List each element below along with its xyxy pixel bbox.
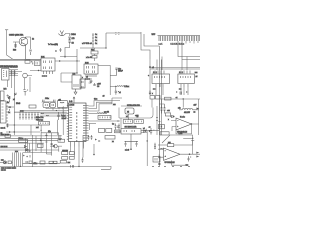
diode D203 (89, 78, 93, 83)
svg-text:17x: 17x (48, 131, 51, 133)
wire x41 long vertical (40, 125, 42, 152)
rail resistors zigzag (41, 113, 49, 116)
IC501 part number vertical (76, 112, 78, 142)
svg-text:x: x (152, 93, 153, 95)
K1 inner (126, 121, 131, 123)
wire y48 rail (80, 47, 106, 49)
capacitor C110 electro (7, 95, 10, 100)
wire vertical drops x25 x27 x29 (26, 138, 30, 152)
comp marks left of reg (117, 126, 119, 127)
wire L-run outer (141, 32, 150, 59)
wire y163.6 (12, 161, 61, 164)
svg-text:IC01: IC01 (41, 57, 45, 59)
ticks on right verticals (156, 118, 161, 122)
op-amp IC571a (176, 118, 192, 130)
wire vertical cluster bottom left (13, 153, 23, 167)
wire top rail right y99 (160, 98, 200, 100)
IC203 block lower (72, 75, 81, 89)
wire IF pins right (9, 70, 22, 76)
svg-text:17B: 17B (72, 38, 76, 40)
svg-text:x4: x4 (196, 76, 198, 78)
svg-text:17dB4: 17dB4 (71, 34, 76, 36)
IC201 SIF block (41, 58, 55, 71)
wire opamp1 in/out (171, 121, 199, 132)
svg-text:R03: R03 (13, 50, 16, 52)
wire x94 vertical dots (93, 144, 95, 155)
wire comb drop 2 (182, 41, 200, 60)
connector comb bar (158, 35, 201, 37)
op-amp IC571b (164, 148, 181, 160)
IC501 right pin labels (83, 106, 86, 141)
wire L-run inner (144, 34, 161, 166)
wire Q105 emitter down (25, 77, 31, 92)
small box pair bottom right (106, 128, 112, 132)
junction dot F (149, 131, 150, 132)
svg-text:1R: 1R (72, 43, 75, 45)
svg-text:SU REGULATR: SU REGULATR (125, 126, 138, 129)
wire crystal to K1 (128, 114, 130, 120)
svg-text:R/C: R/C (4, 89, 8, 91)
wire opamp1 feedback bottom (176, 124, 192, 134)
svg-text:xx: xx (159, 164, 161, 166)
svg-text:x x x x: x x x x (42, 76, 47, 78)
IC302 bottom pins (181, 84, 188, 87)
svg-text:x: x (56, 51, 57, 53)
capacitor C640 on x51 (51, 144, 53, 145)
wire IC302 bottom drops (181, 87, 188, 95)
resistor R105 vertical (11, 70, 13, 76)
component box FB1101 (35, 61, 41, 66)
wire opamp2 inputs (158, 149, 164, 157)
junction dot C (105, 47, 106, 48)
svg-text:IC3: IC3 (73, 74, 76, 76)
wire y146.1 left (50, 146, 62, 152)
svg-text:xx x: xx x (15, 151, 18, 153)
key box inner (41, 123, 49, 125)
svg-text:I7048: I7048 (16, 103, 20, 105)
wire x147 vertical (146, 131, 148, 166)
svg-text:431.3W: 431.3W (184, 112, 190, 114)
arrow out right 2 (196, 156, 199, 158)
svg-text:xxx: xxx (1, 160, 4, 162)
connector comb teeth (159, 36, 200, 41)
wire Q1 base (13, 42, 19, 44)
wire keyrail (14, 111, 40, 113)
wire x152 from box pair (151, 99, 153, 108)
svg-text:IC02: IC02 (85, 63, 89, 65)
box pair P1b (69, 152, 74, 155)
arrow out right 1 (196, 152, 199, 154)
junction dot rail2 (63, 112, 64, 113)
FB1101 inner marks (36, 62, 38, 65)
svg-text:+x: +x (149, 127, 151, 129)
wire rail y132 (6, 131, 40, 133)
wire x57 down (57, 106, 63, 135)
svg-text:x x: x x (153, 89, 155, 91)
component box T1 (168, 144, 174, 147)
svg-text:+xx: +xx (167, 110, 170, 112)
svg-text:xxx x1: xxx x1 (1, 128, 6, 130)
wire rails to amps (150, 68, 200, 70)
small box S101 (29, 105, 36, 108)
wire IC101 pin to vertical (6, 106, 14, 108)
wire bus up right (112, 98, 122, 104)
wire comb drop 1 (178, 41, 200, 57)
wire x192.7 vertical2 (192, 135, 194, 154)
svg-text:x3: x3 (86, 77, 88, 79)
T filter below regulator (125, 134, 139, 149)
svg-text:C8: C8 (97, 86, 99, 88)
wire x46 long vertical (46, 133, 51, 154)
crystal X201 inner (45, 104, 47, 106)
svg-text:xxx: xxx (68, 162, 71, 164)
crystal X201b (50, 103, 56, 108)
key matrix box (39, 122, 50, 126)
capacitor C297 (93, 83, 98, 86)
wire x121 connector (120, 118, 122, 129)
wire Q105 out (27, 71, 41, 76)
resistor R520 (97, 112, 107, 115)
K2 inner (136, 121, 141, 123)
svg-text:F21: F21 (91, 50, 94, 52)
svg-text:1.5M: 1.5M (179, 133, 183, 135)
arrow right edge (197, 108, 200, 110)
junction dot L (192, 138, 193, 139)
junction dot x79 (78, 166, 79, 167)
capacitor C241 (115, 91, 119, 95)
IC203 inner pins (74, 84, 78, 87)
svg-text:xxx: xxx (195, 72, 198, 74)
wire x32 long vertical (32, 135, 34, 167)
small box IC204 left (80, 79, 85, 88)
capacitor C111 electro (23, 90, 28, 96)
box tall right (105, 136, 115, 140)
small box TP1 (25, 60, 30, 63)
svg-text:UPC324/xLM: UPC324/xLM (165, 162, 176, 164)
transistor Q105 (23, 73, 28, 78)
wire resistor tops to rail (159, 99, 164, 105)
wire rail y147.9 (0, 147, 26, 149)
svg-text:C30x: C30x (45, 98, 49, 100)
wire x89.5 drop (89, 124, 91, 131)
plus marks (23, 155, 30, 158)
junction dot opamp1 out (191, 123, 192, 124)
IC501 right pins (86, 106, 89, 141)
wire drops to IC302 (182, 57, 187, 71)
junction dot H (147, 140, 148, 141)
svg-text:xx: xx (112, 141, 114, 143)
wire rail y150 (0, 149, 59, 151)
svg-text:x2: x2 (137, 116, 139, 118)
wire left col verticals (8, 71, 15, 136)
wire under FL201 (59, 107, 63, 109)
junction dot E (76, 72, 77, 73)
diode D601 with circle (0, 161, 6, 163)
wire x110 vertical (109, 65, 111, 95)
diode chain marks (24, 146, 31, 152)
IC302 block (178, 74, 194, 84)
wire crystal loop (42, 101, 56, 104)
wire x36 vertical (35, 136, 37, 151)
K3 inner pins (160, 126, 162, 128)
junction dot rail1 (56, 110, 57, 111)
box right mid (153, 157, 160, 163)
component box F201 (91, 51, 98, 54)
ULTRA DTA section outline (119, 106, 153, 118)
junction dots x41 (41, 130, 42, 131)
junction dot A (64, 56, 65, 57)
component box left edge K3 (159, 124, 165, 128)
crystal X201 (43, 103, 50, 108)
opamp2 input marks (165, 151, 167, 157)
wire coil ends (179, 109, 199, 111)
svg-text:I7.7xx: I7.7xx (19, 138, 24, 140)
svg-text:x: x (168, 119, 169, 121)
wire bus double vertical right (157, 99, 160, 135)
svg-text:IF/TUNER PWR SUB: IF/TUNER PWR SUB (0, 66, 18, 69)
svg-text:C1815 Q1101 KSA: C1815 Q1101 KSA (9, 34, 24, 37)
svg-text:x: x (82, 77, 83, 79)
tick top of left vertical (5, 29, 8, 31)
IC301 inner pins (155, 76, 165, 78)
junction dot G (130, 148, 132, 150)
svg-text:xxx: xxx (113, 104, 116, 106)
small box C511 (115, 130, 121, 133)
IC302 top pins (181, 71, 190, 74)
wire y122.4 (89, 123, 97, 125)
junction dot B (76, 60, 77, 61)
wire x83 vertical (82, 135, 84, 158)
wire y120 long (89, 120, 121, 122)
box Ba (40, 161, 45, 164)
svg-text:+x: +x (176, 97, 178, 99)
resistor R240 (117, 85, 124, 88)
IC201 inner pin marks (44, 61, 52, 70)
svg-text:xx1: xx1 (36, 127, 39, 129)
capacitor C620 (59, 135, 61, 141)
transistor Q1101 body (19, 37, 28, 46)
component box C621 (58, 139, 65, 142)
svg-text:uCOM: uCOM (69, 104, 74, 106)
resistor R581 (160, 147, 163, 150)
svg-text:To Tuner(4B): To Tuner(4B) (48, 43, 58, 46)
wire main bus double (0, 59, 80, 61)
component box B1 (5, 135, 11, 138)
svg-text:xxx: xxx (168, 142, 171, 144)
IC IF left inner pins (3, 71, 7, 78)
svg-text:X5: X5 (127, 112, 129, 114)
junction dot rail y132 (14, 131, 15, 132)
component box K1 (123, 120, 132, 124)
wire T1 left (158, 144, 168, 146)
wire bottom bus rails (0, 136, 62, 143)
resistor R1110 (68, 38, 70, 45)
wire opamp2 bottom feedback (172, 160, 186, 165)
wire IC202 to x110 (98, 64, 110, 66)
IC202 block (84, 64, 98, 74)
transistor Q1101 leads (22, 37, 26, 59)
box pair P2b (69, 157, 74, 160)
wire y166.4 left part (0, 165, 40, 167)
junction dots cluster (14, 166, 15, 167)
capacitor C571 (150, 128, 155, 135)
svg-text:Cx: Cx (95, 43, 97, 45)
svg-text:x01: x01 (58, 99, 61, 101)
wire node A stub (60, 57, 77, 59)
component box R571 (165, 97, 172, 100)
capacitor C1105 (29, 50, 32, 55)
svg-text:0.0x: 0.0x (94, 99, 97, 101)
IC202 inner pin marks (87, 66, 95, 73)
wire box chain verticals (94, 48, 96, 61)
wire TP box to right vertical (174, 144, 193, 146)
wire bottom long y166.4 (40, 166, 111, 169)
wire x115.8 down (115, 86, 117, 91)
crystal X201b inner (52, 104, 54, 106)
diode D110 (14, 93, 16, 96)
marks near B3b (26, 161, 27, 164)
crystal X501 box (125, 108, 134, 114)
svg-text:xxx 82: xxx 82 (104, 112, 109, 114)
wire y132.8 (41, 133, 58, 139)
svg-text:x2x: x2x (178, 107, 181, 109)
wire x51 long vertical (51, 133, 53, 156)
inductor L571 (182, 109, 192, 110)
capacitor C120 (9, 107, 11, 111)
capacitor C630 (88, 135, 93, 140)
svg-text:x x: x x (179, 89, 181, 91)
arrow up reset (73, 97, 75, 103)
component on x150 (149, 67, 151, 68)
bottom marks right (152, 166, 190, 168)
svg-text:1 1 1: 1 1 1 (153, 72, 157, 74)
svg-text:x1: x1 (119, 92, 121, 94)
FL201 inner (60, 101, 64, 104)
component Q601 (54, 145, 57, 148)
IC501 left pins (67, 105, 69, 139)
IC501 microcontroller block (69, 103, 87, 142)
component box B4b (38, 144, 44, 148)
filter box FL201 (58, 101, 68, 108)
component box B3 (8, 161, 12, 164)
wire pin to R520 (89, 113, 98, 115)
svg-text:104uF: 104uF (62, 118, 67, 120)
wire right edge vertical (198, 99, 200, 135)
junction dot J (25, 149, 26, 150)
wire opamp2 out (180, 153, 200, 155)
box P3 single (60, 161, 66, 164)
svg-text:2.2kxx: 2.2kxx (124, 86, 129, 88)
transistor Q1102 body (59, 31, 66, 37)
resistor R1103 (14, 44, 16, 48)
junction dot rail y125 (14, 124, 15, 125)
capacitor C1110 (68, 37, 71, 38)
svg-text:1 40: 1 40 (69, 101, 72, 103)
wire diag feedback (162, 135, 193, 143)
box pair P2a (62, 157, 68, 160)
wire top rail y33 (106, 33, 141, 48)
svg-text:Cx: Cx (95, 40, 97, 42)
IC block IF left (2, 69, 10, 81)
resistor R1112 (60, 48, 62, 52)
resistor R572 vertical (161, 105, 163, 114)
component box L201 (92, 56, 97, 59)
junction dots x41b (41, 140, 42, 141)
wire Q1 collector to right (26, 37, 31, 49)
capacitor C581 (158, 154, 160, 159)
svg-text:1k: 1k (32, 39, 34, 41)
svg-text:x0: x0 (103, 95, 105, 97)
wire y138.3 stub (183, 137, 193, 139)
marks x41 (40, 138, 42, 140)
svg-text:x x x: x x x (20, 111, 24, 113)
junction dot R240 (115, 86, 116, 87)
box pair P1a (62, 152, 68, 155)
small box top right 2 (156, 96, 161, 100)
svg-text:ULTRA DTA SYS: ULTRA DTA SYS (127, 104, 141, 107)
capacitor stack C210 (92, 33, 94, 48)
diode D571 (144, 129, 147, 133)
wire reg left right (115, 130, 159, 132)
svg-text:xxx: xxx (186, 164, 189, 166)
resistor R573 vertical (164, 105, 166, 114)
junction cluster (9, 131, 11, 133)
diode D572 (171, 115, 175, 117)
wire to IC203 (61, 73, 77, 82)
resistor ladder row (19, 112, 39, 119)
junction dots cluster2 (20, 166, 21, 167)
capacitor chain x155 (154, 143, 156, 150)
wire Q1102 collector right (66, 34, 70, 37)
svg-text:x2: x2 (13, 99, 15, 101)
svg-text:100uF: 100uF (118, 71, 123, 73)
IC502 eeprom block (98, 116, 111, 120)
arrow marker B (59, 60, 61, 62)
transistor circle D601 (4, 161, 7, 164)
IC301 block (152, 74, 170, 84)
capacitor C310 plus (176, 91, 188, 94)
IC202 bottom pins (86, 74, 96, 77)
opamp input marks (177, 121, 179, 128)
dash cluster top (115, 33, 120, 35)
svg-text:Cx: Cx (95, 34, 97, 36)
capacitor C582 (188, 156, 192, 161)
component small S (71, 165, 74, 168)
box pair Bc (54, 161, 58, 164)
wire uC bottom drops (71, 147, 84, 167)
capacitor C220 (110, 68, 118, 76)
junction dot I (183, 98, 184, 99)
component R121 (7, 124, 9, 128)
capacitor C305 (149, 91, 151, 95)
component box R574 (165, 113, 170, 116)
wire coil feed (182, 99, 184, 108)
junction dot D (38, 70, 39, 71)
svg-text:Cx: Cx (95, 37, 97, 39)
junction dot r2 (14, 131, 15, 132)
junction dot y120 (117, 120, 118, 121)
svg-text:x x x x: x x x x (85, 79, 90, 81)
svg-text:a a 1: a a 1 (159, 43, 163, 45)
junction cluster dots (95, 139, 101, 143)
SU reg inner marks (124, 130, 135, 132)
IC301 bottom pins (156, 84, 163, 87)
tick marks x46 (45, 135, 47, 142)
SU regulator block (121, 129, 141, 135)
wire tuner supply left vertical (7, 30, 41, 59)
resistor R110 (9, 96, 11, 102)
resistor R106 vertical (14, 70, 16, 76)
